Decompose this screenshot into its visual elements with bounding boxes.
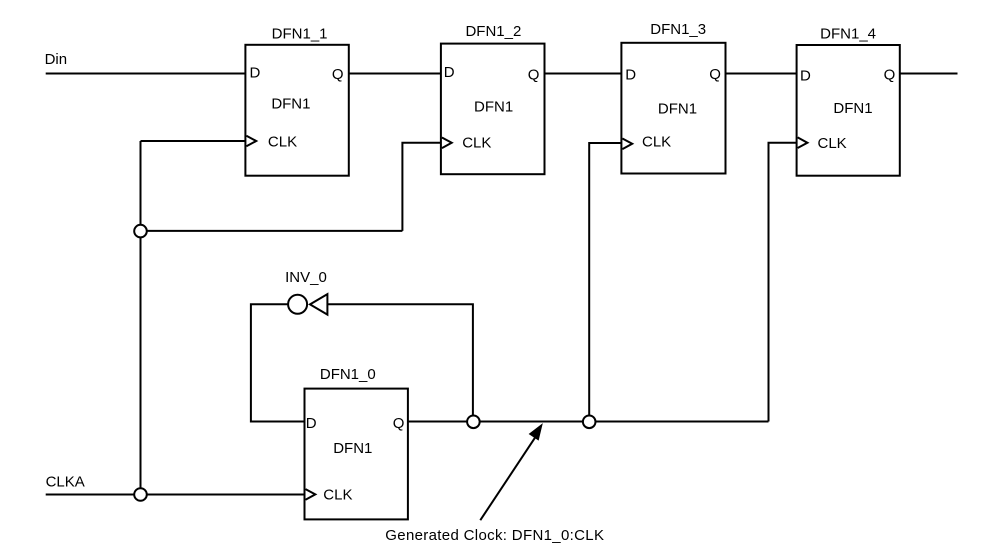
- wire INV_0 input from generated clock net: [327, 304, 473, 421]
- svg-text:DFN1: DFN1: [271, 96, 310, 113]
- svg-text:D: D: [625, 66, 636, 83]
- svg-text:Q: Q: [332, 66, 344, 83]
- svg-text:CLKA: CLKA: [46, 473, 85, 490]
- svg-text:CLK: CLK: [268, 134, 297, 151]
- junction on trunk at mid branch: [134, 225, 147, 238]
- svg-text:INV_0: INV_0: [285, 269, 327, 286]
- wire DFN1_1.Q to DFN1_2.D: [349, 73, 441, 75]
- wire CLKA trunk vertical: [140, 141, 142, 495]
- svg-text:Din: Din: [45, 51, 68, 68]
- svg-text:Q: Q: [393, 415, 405, 432]
- wire DFN1_0.Q generated clock net: [408, 421, 769, 423]
- inverter INV_0: [285, 269, 327, 315]
- body DFN1_4: [797, 45, 900, 176]
- flip-flop DFN1_4: [797, 25, 900, 175]
- junction generated clock at INV_0 tap: [467, 416, 480, 429]
- body DFN1_2: [441, 44, 545, 175]
- output bubble: [288, 295, 307, 314]
- wire DFN1_3.Q to DFN1_4.D: [726, 73, 797, 75]
- flip-flop DFN1_2: [441, 23, 545, 174]
- arrow shaft: [480, 438, 535, 521]
- pin CLK edge triangle: [442, 138, 452, 149]
- svg-text:Q: Q: [528, 66, 540, 83]
- svg-text:Q: Q: [709, 66, 721, 83]
- pin CLK edge triangle: [306, 489, 316, 500]
- svg-text:DFN1: DFN1: [833, 100, 872, 117]
- svg-text:CLK: CLK: [818, 135, 847, 152]
- junction on CLKA wire: [134, 488, 147, 501]
- annotation arrow to generated clock net: [480, 424, 542, 520]
- arrow head: [530, 424, 543, 439]
- wire Din to DFN1_1.D: [46, 73, 246, 75]
- svg-text:DFN1: DFN1: [658, 101, 697, 118]
- svg-text:D: D: [306, 415, 317, 432]
- svg-text:D: D: [800, 68, 811, 85]
- pin CLK edge triangle: [798, 137, 808, 148]
- flip-flop DFN1_0: [305, 366, 408, 519]
- pin CLK edge triangle: [622, 139, 632, 150]
- wire CLKA to DFN1_0.CLK: [46, 494, 305, 496]
- junction generated clock at DFN1_3 tap: [583, 416, 596, 429]
- wire CLKA mid branch horizontal: [141, 230, 403, 232]
- svg-text:Generated Clock: DFN1_0:CLK: Generated Clock: DFN1_0:CLK: [385, 527, 604, 544]
- svg-text:Q: Q: [884, 67, 896, 84]
- body DFN1_1: [245, 45, 348, 176]
- wire riser to DFN1_3.CLK: [589, 143, 621, 422]
- wire riser to DFN1_2.CLK: [402, 143, 441, 231]
- body DFN1_0: [305, 389, 408, 520]
- svg-text:D: D: [250, 65, 261, 82]
- flip-flop DFN1_3: [621, 21, 725, 174]
- svg-text:DFN1: DFN1: [333, 440, 372, 457]
- svg-text:DFN1_1: DFN1_1: [272, 25, 328, 42]
- wire DFN1_2.Q to DFN1_3.D: [545, 73, 622, 75]
- svg-text:DFN1_2: DFN1_2: [465, 23, 521, 40]
- svg-text:D: D: [444, 64, 455, 81]
- svg-text:DFN1_0: DFN1_0: [320, 366, 376, 383]
- inverter triangle: [310, 294, 327, 315]
- svg-text:CLK: CLK: [462, 134, 491, 151]
- pin CLK edge triangle: [246, 136, 256, 147]
- svg-text:CLK: CLK: [642, 134, 671, 151]
- svg-text:CLK: CLK: [323, 487, 352, 504]
- wire DFN1_4.Q output: [900, 73, 958, 75]
- wire to DFN1_1.CLK: [141, 140, 246, 142]
- svg-text:DFN1: DFN1: [474, 99, 513, 116]
- svg-text:DFN1_3: DFN1_3: [650, 21, 706, 38]
- body DFN1_3: [621, 43, 725, 174]
- wire riser to DFN1_4.CLK: [769, 143, 797, 422]
- svg-text:DFN1_4: DFN1_4: [820, 25, 876, 42]
- wire INV_0 output to DFN1_0.D: [251, 304, 305, 421]
- flip-flop DFN1_1: [245, 25, 348, 175]
